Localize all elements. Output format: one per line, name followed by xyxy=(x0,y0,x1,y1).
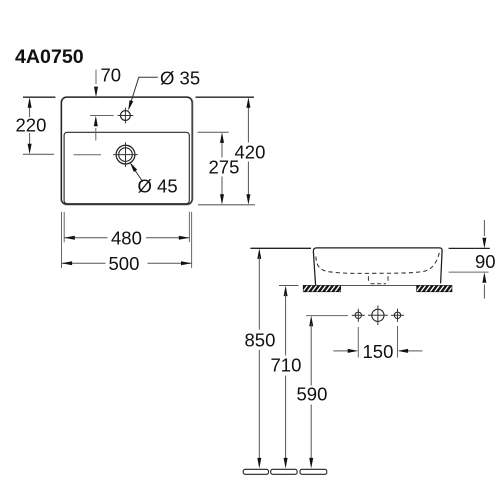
extension line basin rim to 850 line xyxy=(250,247,311,249)
drain hole circles (Ø45) xyxy=(113,142,138,167)
side view drain dashed outline xyxy=(368,276,388,284)
leader line for Ø 35 xyxy=(128,77,158,111)
dimension 500 (overall width) xyxy=(62,261,192,265)
svg-text:500: 500 xyxy=(109,253,140,274)
side view inner bowl dashed profile xyxy=(316,252,440,274)
hatched counter section right xyxy=(416,285,459,293)
svg-text:850: 850 xyxy=(245,330,276,351)
top view outer rim (500x420 basin outline) xyxy=(62,97,193,204)
svg-text:220: 220 xyxy=(16,115,47,136)
svg-text:590: 590 xyxy=(297,384,328,405)
dimension 590 (tap hole height above floor) xyxy=(309,316,313,469)
dimension 850 (rim height above floor) xyxy=(257,248,261,468)
svg-text:150: 150 xyxy=(363,341,394,362)
side view basin body outline xyxy=(313,248,442,286)
dimension 90 (basin rim height) xyxy=(449,220,490,299)
floor line segment right xyxy=(300,469,327,474)
shared bottom extension line for 420/275 xyxy=(198,204,255,206)
floor line segment left xyxy=(243,469,268,474)
dimension 480 (inner basin width) xyxy=(64,236,189,240)
dimension 150 (tap hole spacing) xyxy=(333,326,422,358)
faucet hole circle (Ø35) xyxy=(118,108,134,124)
tap hole centre xyxy=(368,306,388,326)
svg-text:Ø 35: Ø 35 xyxy=(160,68,200,89)
svg-text:4A0750: 4A0750 xyxy=(15,46,84,68)
svg-text:275: 275 xyxy=(209,157,240,178)
extension line counter level to 710 line xyxy=(279,285,299,287)
svg-text:480: 480 xyxy=(111,228,142,249)
counter surface line xyxy=(340,285,417,287)
dimension 710 (counter height above floor) xyxy=(284,286,288,469)
top view inner basin rectangle (480 wide) xyxy=(64,132,189,203)
dimension 420 (right side overall depth) xyxy=(196,97,255,205)
tap hole small left xyxy=(352,309,365,322)
dimension 275 (inner basin depth) xyxy=(198,132,229,205)
floor line segment middle xyxy=(271,469,297,474)
svg-text:90: 90 xyxy=(475,251,496,272)
dimension 70 (faucet hole offset from top edge) xyxy=(90,70,114,141)
dimension 220 (left side, top edge to drain centre) xyxy=(23,97,101,155)
hatched counter section left xyxy=(302,285,345,293)
extension lines below top view for 480/500 xyxy=(62,212,192,268)
svg-text:710: 710 xyxy=(271,355,302,376)
leader line for Ø 45 xyxy=(130,162,143,181)
extension line tap hole level to 590 line xyxy=(306,315,348,317)
svg-text:Ø 45: Ø 45 xyxy=(138,176,178,197)
tap hole small right xyxy=(391,309,404,322)
svg-text:70: 70 xyxy=(101,65,122,86)
